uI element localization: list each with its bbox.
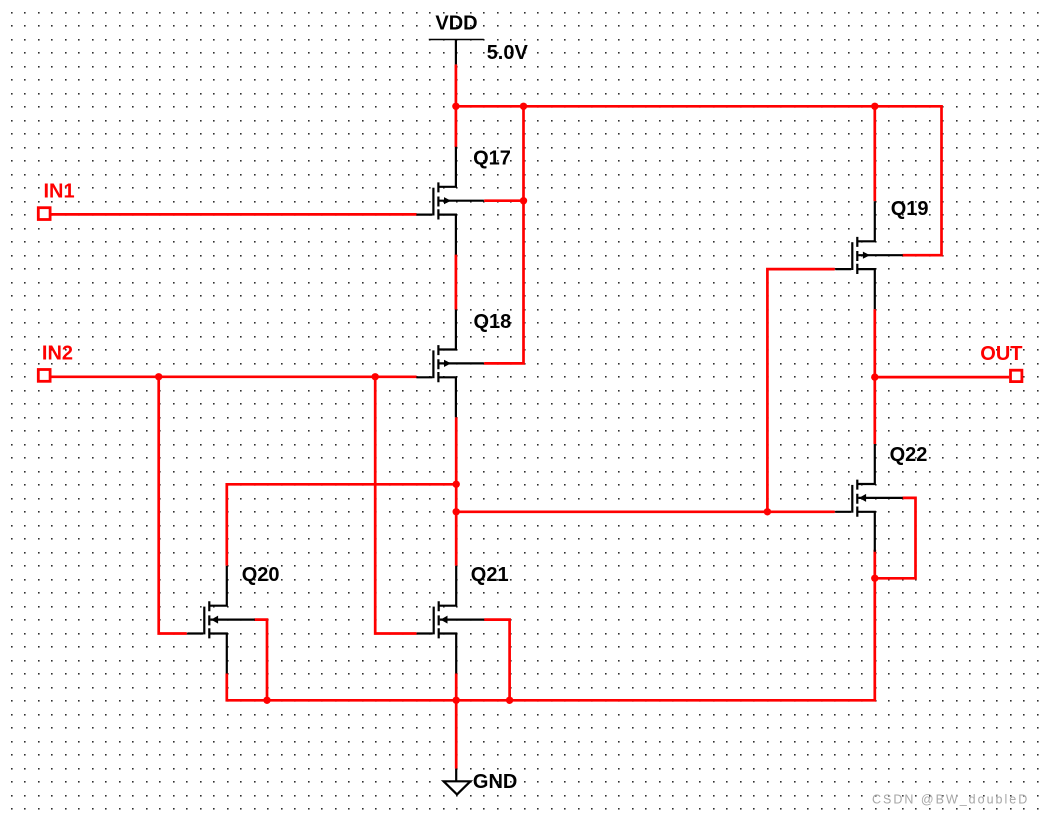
svg-text:IN1: IN1 [44,181,75,203]
svg-text:GND: GND [473,771,517,793]
svg-text:Q17: Q17 [473,148,511,170]
svg-text:Q18: Q18 [474,311,512,333]
svg-text:Q20: Q20 [242,564,280,586]
svg-text:IN2: IN2 [42,343,73,365]
svg-text:Q22: Q22 [890,444,928,466]
svg-text:VDD: VDD [435,12,477,34]
svg-text:5.0V: 5.0V [487,42,529,64]
svg-text:OUT: OUT [980,343,1022,365]
svg-text:Q19: Q19 [891,198,929,220]
svg-text:CSDN @BW_doubleD: CSDN @BW_doubleD [872,792,1029,806]
svg-text:Q21: Q21 [471,564,509,586]
